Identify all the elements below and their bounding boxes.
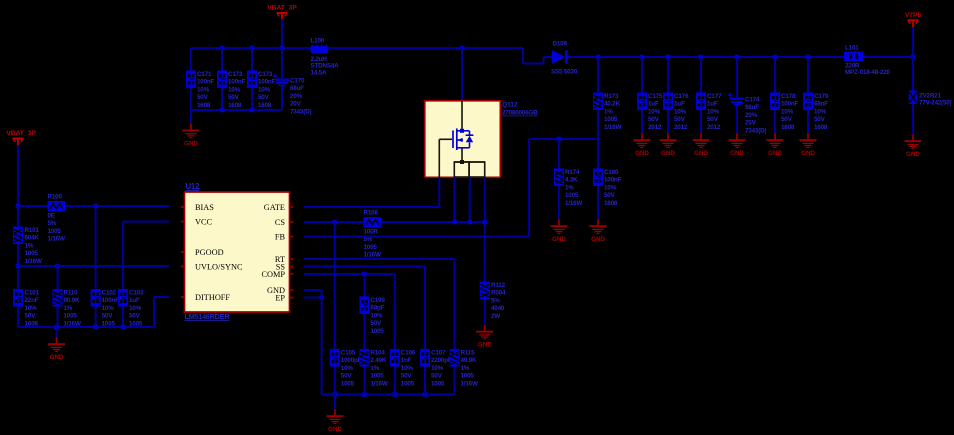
wire to C179 [807, 57, 809, 93]
wire R173 to FB node [597, 110, 599, 139]
wire COMP to C199 [363, 274, 365, 297]
svg-text:EP: EP [275, 294, 285, 303]
svg-text:68uF: 68uF [290, 85, 304, 92]
wire C170 bottom [281, 86, 283, 110]
svg-text:40.2K: 40.2K [604, 101, 620, 108]
svg-text:GND: GND [591, 236, 605, 243]
wire VBAT_3P rail upper [17, 145, 19, 206]
svg-text:C170: C170 [290, 78, 305, 85]
transistor Q112 (power MOSFET in module) [425, 101, 538, 178]
svg-text:10%: 10% [370, 312, 383, 319]
svg-text:50V: 50V [228, 94, 240, 101]
resistor R110 [53, 289, 81, 327]
svg-text:50V: 50V [707, 116, 719, 123]
svg-text:22nF: 22nF [25, 297, 39, 304]
junction (808,57) [806, 55, 811, 60]
wire R101 to UVLO node [17, 244, 19, 266]
junction (57.5,266) [55, 264, 60, 269]
svg-text:1/16W: 1/16W [25, 258, 42, 265]
wire C101 to ground bus [17, 307, 19, 328]
junction (559,139) [557, 137, 562, 142]
wire V7P5 rail [912, 27, 914, 57]
resistor R115 [450, 349, 478, 387]
wire to R110 [57, 266, 59, 289]
svg-text:1005: 1005 [341, 380, 355, 387]
wire EP pin [304, 297, 322, 299]
capacitor C178 [770, 93, 799, 131]
wire C171 top [190, 48, 192, 71]
wire C199 to R104 [363, 314, 365, 349]
wire DITHOFF vertical [153, 297, 155, 327]
wire GND pin [304, 289, 322, 291]
ground (left bus) [48, 338, 65, 362]
wire RT line [304, 258, 455, 260]
svg-text:C106: C106 [401, 350, 416, 357]
capacitor C105 [330, 349, 362, 387]
svg-text:GND: GND [635, 150, 649, 157]
ground (C177) [693, 134, 710, 158]
wire rail to R101 [17, 206, 19, 227]
junction (95.6,327) [93, 325, 98, 330]
wire C175 to ground [641, 110, 643, 134]
svg-text:1uF: 1uF [129, 297, 140, 304]
ground (C178) [767, 134, 784, 158]
svg-text:10%: 10% [102, 305, 115, 312]
svg-text:C103: C103 [129, 290, 144, 297]
wire C170 top [281, 48, 283, 78]
svg-text:GND: GND [184, 140, 198, 147]
svg-text:0E: 0E [48, 213, 55, 220]
wire VCC to C103 [122, 222, 124, 290]
svg-text:68nF: 68nF [814, 101, 828, 108]
wire C174 to ground [736, 105, 738, 134]
resistor R104 [359, 349, 387, 387]
svg-text:1/16W: 1/16W [48, 236, 65, 243]
wire output bus [575, 56, 844, 58]
wire C173 top [251, 48, 253, 71]
svg-text:GND: GND [478, 342, 492, 349]
wire to ground [334, 395, 336, 410]
capacitor C176 [663, 93, 689, 131]
svg-text:2012: 2012 [648, 124, 662, 131]
wire C103 to ground bus [122, 307, 124, 328]
svg-text:1005: 1005 [431, 380, 445, 387]
svg-text:2012: 2012 [707, 124, 721, 131]
junction (321.5,297.5) [319, 295, 324, 300]
wire C106 to bus [394, 367, 396, 395]
svg-text:1uF: 1uF [648, 101, 659, 108]
svg-text:C172: C172 [228, 71, 243, 78]
capacitor C101 [13, 289, 39, 327]
svg-text:GND: GND [801, 150, 815, 157]
svg-text:20%: 20% [290, 93, 303, 100]
svg-text:1005: 1005 [25, 250, 39, 257]
svg-text:R112: R112 [491, 282, 506, 289]
wire jog up [543, 57, 545, 64]
svg-text:1%: 1% [25, 242, 34, 249]
svg-text:10%: 10% [648, 108, 661, 115]
resistor R108 [364, 210, 382, 259]
svg-text:UVLO/SYNC: UVLO/SYNC [195, 263, 243, 272]
wire C172 bottom [221, 88, 223, 110]
svg-text:4040: 4040 [491, 305, 505, 312]
wire R110 to ground bus [57, 307, 59, 328]
wire to C177 [700, 57, 702, 93]
junction (123,327) [121, 325, 126, 330]
svg-text:1%: 1% [370, 365, 379, 372]
wire C107 to bus [424, 367, 426, 395]
ground (C179) [800, 134, 817, 158]
ground (R112) [476, 325, 493, 349]
wire Q112 source stub 3 to R112 [484, 177, 486, 282]
ground (middle bus) [327, 410, 344, 434]
wire C177 to ground [700, 110, 702, 134]
wire SS line [304, 266, 425, 268]
svg-text:2W: 2W [491, 313, 500, 320]
svg-text:50V: 50V [431, 373, 443, 380]
wire RT to R115 [454, 259, 456, 349]
wire to ground [190, 110, 192, 124]
svg-text:100R: 100R [364, 229, 379, 236]
resistor R173 [593, 93, 621, 131]
svg-text:50V: 50V [648, 116, 660, 123]
svg-text:V7P5: V7P5 [905, 12, 922, 19]
svg-text:2.49K: 2.49K [370, 357, 386, 364]
svg-text:1608: 1608 [258, 102, 272, 109]
svg-text:1005: 1005 [48, 228, 62, 235]
svg-text:50V: 50V [102, 313, 114, 320]
junction (364.4,394.5) [362, 392, 367, 397]
svg-text:1005: 1005 [370, 373, 384, 380]
junction (462,48) [460, 46, 465, 51]
svg-text:1uF: 1uF [674, 101, 685, 108]
svg-text:1005: 1005 [461, 373, 475, 380]
svg-text:20%: 20% [745, 112, 758, 119]
junction (18,266) [16, 264, 21, 269]
svg-text:50V: 50V [401, 373, 413, 380]
svg-text:BIAS: BIAS [195, 203, 214, 212]
capacitor C179 [803, 93, 829, 131]
svg-text:10%: 10% [431, 365, 444, 372]
svg-text:14.5A: 14.5A [311, 69, 327, 76]
svg-text:90.9K: 90.9K [64, 297, 80, 304]
capacitor C107 [420, 349, 452, 387]
ground (input caps) [183, 124, 200, 148]
svg-text:C179: C179 [814, 93, 829, 100]
svg-text:2200pF: 2200pF [431, 357, 452, 364]
svg-text:C107: C107 [431, 350, 446, 357]
capacitor C175 [637, 93, 663, 131]
svg-text:C180: C180 [604, 169, 619, 176]
resistor R112 [480, 282, 506, 320]
wire diode anode [544, 56, 553, 58]
wire left ground bus [18, 326, 154, 328]
wire bus to MOSFET drain [461, 48, 463, 101]
svg-text:2012: 2012 [674, 124, 688, 131]
svg-text:R110: R110 [64, 290, 79, 297]
svg-text:1608: 1608 [781, 124, 795, 131]
svg-text:1/16W: 1/16W [370, 380, 387, 387]
svg-text:50V: 50V [258, 94, 270, 101]
svg-text:1005: 1005 [64, 313, 78, 320]
svg-text:1608: 1608 [604, 200, 618, 207]
wire R112 to ground [484, 299, 486, 325]
junction (425,394.5) [423, 392, 428, 397]
svg-text:1005: 1005 [604, 116, 618, 123]
svg-text:R100: R100 [48, 194, 63, 201]
wire COMP to C106 [394, 274, 396, 349]
wire C171 bottom [190, 88, 192, 110]
svg-text:Q112: Q112 [502, 102, 518, 109]
svg-text:50V: 50V [370, 320, 382, 327]
svg-text:25V: 25V [745, 120, 757, 127]
junction (484.8,222) [483, 220, 488, 225]
wire diode cathode [568, 56, 575, 58]
svg-text:1/16W: 1/16W [461, 380, 478, 387]
wire C176 to ground [667, 110, 669, 134]
svg-text:1/16W: 1/16W [604, 124, 621, 131]
diode D109 [551, 40, 578, 75]
svg-text:GND: GND [661, 150, 675, 157]
wire Q112 source stub 2 [469, 177, 471, 222]
svg-text:49.9K: 49.9K [461, 357, 477, 364]
wire to C180 [597, 139, 599, 169]
junction (282,48) [280, 46, 285, 51]
wire to ZV2R21 [912, 57, 914, 91]
wire output bus after bead [863, 56, 913, 58]
svg-text:50V: 50V [604, 192, 616, 199]
wire C172 top [221, 48, 223, 71]
svg-text:PGOOD: PGOOD [195, 248, 224, 257]
junction (598,57) [596, 55, 601, 60]
ferrite bead L101 [844, 44, 890, 76]
junction (394.8,394.5) [393, 392, 398, 397]
wire C173 bottom [251, 88, 253, 110]
svg-text:1%: 1% [461, 365, 470, 372]
wire SS to C107 [424, 267, 426, 350]
wire DITHOFF line [154, 296, 169, 298]
wire to C101 [17, 266, 19, 289]
wire COMP line [304, 273, 395, 275]
wire R174 to ground [558, 186, 560, 220]
svg-text:R173: R173 [604, 93, 619, 100]
svg-text:10%: 10% [341, 365, 354, 372]
svg-text:LM5146RDER: LM5146RDER [185, 312, 231, 321]
svg-text:1608: 1608 [814, 124, 828, 131]
svg-text:100nF: 100nF [197, 79, 215, 86]
svg-text:10%: 10% [707, 108, 720, 115]
svg-text:C173: C173 [258, 71, 273, 78]
junction (222,110) [220, 108, 225, 113]
junction (454.5,222) [452, 220, 457, 225]
svg-text:68uF: 68uF [745, 104, 759, 111]
svg-text:FB: FB [275, 233, 286, 242]
ground (ZV2R21) [905, 135, 922, 159]
wire CS line right [381, 221, 485, 223]
wire to R174 [558, 139, 560, 169]
junction (737,57) [735, 55, 740, 60]
svg-text:R108: R108 [364, 210, 379, 217]
svg-text:10%: 10% [604, 184, 617, 191]
svg-text:C101: C101 [25, 290, 40, 297]
capacitor C174 (polarized) [728, 93, 766, 134]
svg-text:GND: GND [906, 151, 920, 158]
svg-text:50V: 50V [674, 116, 686, 123]
svg-text:DITHOFF: DITHOFF [195, 293, 230, 302]
varistor ZV2R21 [909, 91, 952, 107]
svg-text:C176: C176 [674, 93, 689, 100]
svg-text:68pF: 68pF [370, 305, 384, 312]
ground (C180) [590, 220, 607, 244]
wire to ground [56, 327, 58, 338]
power symbol VBAT_3P [267, 5, 297, 21]
wire input cap ground bus [191, 109, 282, 111]
svg-text:CS: CS [275, 218, 286, 227]
svg-text:1005: 1005 [370, 328, 384, 335]
wire ZV2R21 to ground [912, 104, 914, 135]
svg-text:1005: 1005 [364, 244, 378, 251]
svg-text:1005: 1005 [565, 192, 579, 199]
svg-text:7343(D): 7343(D) [745, 127, 766, 134]
svg-text:5%: 5% [491, 297, 500, 304]
power symbol VBAT_3P [6, 130, 36, 146]
svg-text:20V: 20V [290, 101, 302, 108]
svg-text:C199: C199 [370, 297, 385, 304]
svg-text:GND: GND [694, 150, 708, 157]
svg-text:7343(D): 7343(D) [290, 108, 311, 115]
svg-text:GND: GND [552, 236, 566, 243]
svg-text:L100: L100 [311, 38, 325, 45]
wire BIAS to C102 [95, 206, 97, 289]
junction (701,57) [699, 55, 704, 60]
inductor L100 [311, 38, 340, 77]
ground (C175) [634, 134, 651, 158]
wire to R173 [597, 57, 599, 93]
junction (668,57) [666, 55, 671, 60]
svg-text:50V: 50V [129, 313, 141, 320]
svg-text:50V: 50V [781, 116, 793, 123]
svg-text:77V-242(50): 77V-242(50) [919, 100, 952, 107]
svg-text:10%: 10% [814, 108, 827, 115]
svg-text:1/16W: 1/16W [565, 200, 582, 207]
op-amp/controller IC U12 LM5146RDER [181, 182, 293, 321]
svg-text:1nF: 1nF [401, 357, 412, 364]
junction (334.8,222) [333, 220, 338, 225]
svg-text:50V: 50V [197, 94, 209, 101]
svg-text:10%: 10% [25, 305, 38, 312]
svg-text:VCC: VCC [195, 218, 213, 227]
wire Q112 gate stub [438, 177, 440, 207]
wire bus to diode jog down [522, 48, 524, 64]
svg-text:1000pF: 1000pF [341, 357, 362, 364]
svg-text:100nF: 100nF [781, 101, 799, 108]
wire C180 to ground [597, 186, 599, 220]
svg-text:D109: D109 [553, 40, 568, 47]
wire BIAS line [65, 205, 169, 207]
capacitor C177 [696, 93, 722, 131]
resistor R101 [13, 227, 42, 265]
wire GND/EP down [321, 290, 323, 395]
wire FB line [304, 236, 529, 238]
svg-text:10%: 10% [401, 365, 414, 372]
junction (18,206) [16, 204, 21, 209]
resistor R100 [48, 194, 66, 243]
capacitor C170 (polarized) [273, 74, 311, 115]
svg-text:1uF: 1uF [707, 101, 718, 108]
capacitor C199 [359, 297, 385, 335]
svg-text:50V: 50V [814, 116, 826, 123]
svg-text:C177: C177 [707, 93, 722, 100]
wire VCC line [123, 221, 169, 223]
svg-text:C175: C175 [648, 93, 663, 100]
ground (C176) [660, 134, 677, 158]
capacitor C102 [91, 289, 120, 327]
svg-text:10%: 10% [781, 108, 794, 115]
wire to C175 [641, 57, 643, 93]
svg-text:10%: 10% [197, 86, 210, 93]
capacitor C171 [186, 71, 215, 109]
svg-text:100nF: 100nF [228, 79, 246, 86]
svg-text:1%: 1% [64, 305, 73, 312]
svg-text:100nF: 100nF [102, 297, 120, 304]
junction (469.7,222) [467, 220, 472, 225]
wire R115 to bus [454, 367, 456, 395]
svg-text:1%: 1% [565, 184, 574, 191]
ground (R174) [551, 220, 568, 244]
resistor R174 [554, 169, 582, 207]
junction (642,57) [640, 55, 645, 60]
svg-text:10%: 10% [129, 305, 142, 312]
svg-text:GND: GND [328, 426, 342, 433]
wire Q112 source stub 1 [454, 177, 456, 222]
svg-text:GATE: GATE [264, 203, 285, 212]
wire C105 to bus [334, 367, 336, 395]
svg-text:C102: C102 [102, 290, 117, 297]
svg-text:1005: 1005 [401, 380, 415, 387]
svg-text:1608: 1608 [197, 102, 211, 109]
ground (C174) [729, 134, 746, 158]
junction (364.4,274) [362, 272, 367, 277]
svg-text:50V: 50V [25, 313, 37, 320]
svg-text:27080006GB: 27080006GB [502, 110, 538, 117]
svg-text:10%: 10% [674, 108, 687, 115]
wire to R100 [18, 205, 48, 207]
svg-text:R104: R104 [370, 350, 385, 357]
junction (252,48) [250, 46, 255, 51]
wire to C174 [736, 57, 738, 97]
wire CS filter down [334, 222, 336, 349]
svg-text:100nF: 100nF [258, 79, 276, 86]
capacitor C172 [217, 71, 246, 109]
wire C102 to ground bus [95, 307, 97, 328]
wire FB node horizontal [529, 138, 598, 140]
svg-text:C178: C178 [781, 93, 796, 100]
wire to C176 [667, 57, 669, 93]
svg-text:1608: 1608 [228, 102, 242, 109]
svg-text:4.3K: 4.3K [565, 177, 578, 184]
wire middle ground bus [322, 394, 455, 396]
wire GATE line [304, 206, 439, 208]
junction (913,57) [911, 55, 916, 60]
svg-text:R004: R004 [491, 290, 506, 297]
junction (252,110) [250, 108, 255, 113]
junction (95.6,206) [93, 204, 98, 209]
junction (222,48) [220, 46, 225, 51]
svg-text:C171: C171 [197, 71, 212, 78]
wire C179 to ground [807, 110, 809, 134]
svg-text:R115: R115 [461, 350, 476, 357]
capacitor C106 [390, 349, 416, 387]
